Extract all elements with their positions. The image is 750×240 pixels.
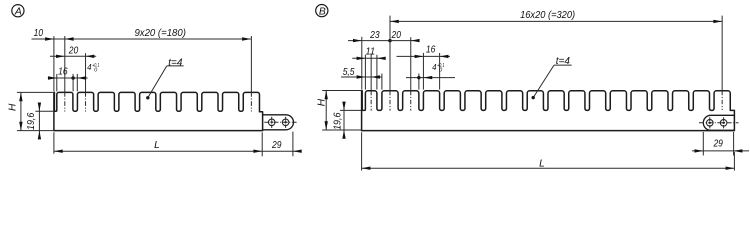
dimension 19,6 (A) [35, 110, 53, 112]
dimension 4 +0.1/0 slot width (A) [77, 76, 86, 79]
dimension 11 (B) [352, 57, 384, 59]
dimension 16 tooth width (B) [397, 55, 451, 57]
extension line A plate right end (for 29) [292, 132, 294, 157]
hole B1 [707, 120, 714, 127]
dimension 4 +0.1/0 slot width (B) [406, 77, 455, 79]
dimension 20 pitch (A) [50, 55, 96, 57]
dimension L (B) [362, 167, 735, 169]
comb profile A outline [54, 92, 263, 130]
dimension H (B) [322, 90, 361, 92]
dimension 29 (A) [262, 150, 301, 152]
svg-text:20: 20 [391, 30, 402, 41]
svg-text:23: 23 [369, 30, 380, 41]
dimension 5,5 (B) [341, 76, 382, 78]
dimension 20 pitch (B) [390, 40, 417, 42]
extension line A left edge (bottom, for L) [53, 132, 55, 153]
svg-text:10: 10 [34, 28, 44, 39]
dimension 16 tooth width (A) [48, 77, 88, 79]
svg-text:29: 29 [713, 139, 724, 150]
leader t=4 (A) [167, 65, 184, 67]
centerline tooth A1 [64, 36, 66, 92]
centerline tooth B1 [370, 53, 372, 90]
extension lines for 16 and 4 (A) [56, 74, 58, 92]
svg-text:t=4: t=4 [168, 57, 183, 68]
svg-text:19,6: 19,6 [26, 112, 37, 130]
dimension H (A) [17, 91, 53, 93]
extension lines for 16 and 4 (B) [422, 53, 424, 90]
dimension 19,6 (B) [340, 109, 361, 111]
hole B2 [720, 120, 727, 127]
end plate A (side view with 2 holes) [263, 115, 294, 130]
svg-text:11: 11 [366, 46, 376, 57]
extension line A left edge (top) [53, 36, 55, 91]
centerline tooth A10 [250, 36, 252, 92]
svg-text:16: 16 [58, 67, 68, 78]
extension line tooth B2 left edge [381, 74, 383, 90]
svg-text:H: H [8, 103, 19, 111]
hole centerlines A [264, 121, 296, 123]
svg-text:L: L [539, 158, 545, 169]
centerline tooth B18 (last) [721, 16, 723, 91]
dimension 16x20 (=320) (B) [390, 20, 722, 22]
figure B label circle [316, 5, 328, 17]
extension line B left edge (top) [361, 37, 363, 90]
dimension 9x20 (=180) (A) [54, 38, 251, 40]
dimension L (A) [54, 150, 262, 152]
leader t=4 (B) [554, 64, 572, 66]
svg-text:16x20 (=320): 16x20 (=320) [520, 10, 575, 21]
dimension 23 (B) [348, 40, 390, 42]
extension line B left edge (bottom, for L) [361, 132, 363, 170]
svg-text:29: 29 [271, 140, 282, 151]
dimension 10 (A) [32, 38, 54, 40]
hole centerlines B [699, 122, 739, 124]
svg-text:5,5: 5,5 [343, 67, 355, 78]
comb profile B outline [362, 91, 735, 131]
svg-text:16: 16 [426, 45, 436, 56]
extension line B comb right edge (for L) [733, 152, 735, 171]
centerline tooth A2 [85, 53, 87, 92]
centerline tooth B3 [410, 37, 412, 90]
extension lines tooth B1 edges [364, 55, 366, 90]
svg-text:B: B [319, 7, 326, 18]
svg-text:9x20 (=180): 9x20 (=180) [134, 28, 186, 39]
figure A label circle [12, 5, 24, 17]
dimension 29 (B) [692, 150, 749, 152]
svg-text:L: L [154, 140, 160, 151]
svg-text:19,6: 19,6 [332, 112, 343, 130]
svg-text:A: A [14, 7, 22, 18]
svg-text:H: H [317, 98, 328, 106]
extension line A comb right edge (for L and 29) [261, 132, 263, 156]
svg-text:20: 20 [68, 46, 79, 57]
extension lines for 29 (B) [702, 132, 704, 156]
svg-text:t=4: t=4 [556, 56, 571, 67]
centerline tooth B2 [389, 16, 391, 91]
hole A2 [282, 119, 289, 126]
end plate B (side view with 2 holes, rounded left end) [703, 115, 734, 130]
hole A1 [268, 119, 275, 126]
